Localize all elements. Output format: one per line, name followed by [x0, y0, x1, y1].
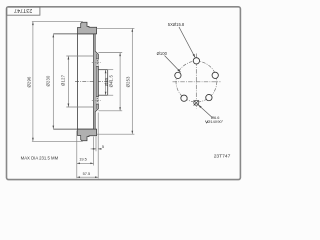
- drum inner surface top (O1): [53, 33, 94, 35]
- bolt hole in section (top): [96, 59, 98, 67]
- centerline: [75, 81, 112, 83]
- dimension arrowheads: [32, 22, 202, 178]
- dimension D127: [66, 56, 93, 107]
- dimension 19.5: [77, 162, 94, 164]
- vertical centerline: [195, 54, 197, 109]
- dimension 57.5: [77, 176, 98, 178]
- bolt hole in section (bottom): [96, 97, 98, 105]
- svg-text:Ø41.5: Ø41.5: [108, 75, 113, 88]
- hub pilot snout: [98, 70, 107, 96]
- dimension 5: [91, 148, 102, 150]
- leader D6.6 countersink: [198, 105, 212, 118]
- inner edge line (O2): [77, 34, 79, 129]
- bolt hole centerline bottom: [92, 99, 102, 101]
- svg-text:Ø14X90°: Ø14X90°: [207, 119, 223, 124]
- svg-text:23T747: 23T747: [14, 7, 32, 13]
- svg-text:Ø100: Ø100: [157, 51, 168, 56]
- bolt hole lower-left: [181, 95, 187, 101]
- svg-text:Ø230: Ø230: [45, 75, 50, 86]
- drum inner surface bottom: [53, 128, 94, 130]
- leader D100: [165, 56, 181, 73]
- dimension D41.5: [119, 53, 121, 111]
- svg-text:MAX DIA 231.5 MM: MAX DIA 231.5 MM: [21, 156, 59, 161]
- bolt hole left: [175, 72, 181, 78]
- bottom dim extension verticals: [77, 113, 98, 179]
- flange extension line top: [98, 52, 122, 54]
- dimension D230: [52, 34, 54, 129]
- bolt hole lower-right: [206, 94, 212, 100]
- dimension D253: [97, 28, 135, 134]
- svg-text:Ø296: Ø296: [26, 76, 31, 87]
- svg-text:Ø253: Ø253: [125, 76, 130, 87]
- svg-text:23T747: 23T747: [214, 154, 231, 160]
- svg-text:Ø127: Ø127: [61, 74, 66, 85]
- leader 5X15.8: [179, 27, 195, 58]
- svg-text:57.5: 57.5: [83, 171, 91, 176]
- wall inner step line: [95, 54, 97, 109]
- back wall band: [94, 34, 99, 129]
- section cap top: [78, 22, 97, 34]
- countersunk hole bottom: [194, 100, 199, 105]
- bolt circle: [176, 61, 217, 102]
- horizontal centerline: [173, 81, 221, 83]
- svg-text:19.5: 19.5: [79, 157, 87, 162]
- dimension D296: [32, 22, 83, 142]
- flange extension line bottom: [98, 110, 122, 112]
- svg-text:5: 5: [102, 144, 104, 149]
- bolt hole centerline top: [92, 62, 102, 64]
- section cap bottom: [78, 129, 97, 141]
- dimension D65: [105, 70, 107, 95]
- bolt hole right: [212, 72, 218, 78]
- pilot extension lines: [108, 69, 114, 71]
- bolt hole top: [193, 58, 199, 64]
- svg-text:5XØ15.8: 5XØ15.8: [168, 22, 185, 27]
- title box: [7, 7, 40, 15]
